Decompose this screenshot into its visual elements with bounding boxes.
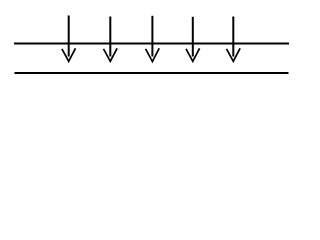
arrow 4 [186,17,200,62]
arrow 2 [104,17,118,62]
arrow 3 [146,16,160,62]
arrow 5 [227,17,241,62]
arrow 1 [62,16,76,62]
top boundary line [14,43,289,45]
bottom boundary line [15,72,289,74]
